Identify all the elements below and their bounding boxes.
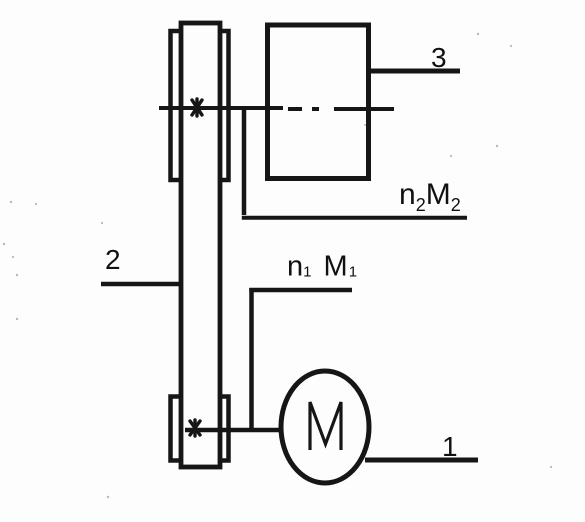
svg-text:1: 1 — [442, 431, 458, 462]
svg-text:n1 M1: n1 M1 — [287, 251, 357, 283]
svg-text:3: 3 — [431, 42, 447, 73]
svg-text:2: 2 — [105, 244, 121, 275]
svg-text:n2M2: n2M2 — [399, 178, 461, 215]
